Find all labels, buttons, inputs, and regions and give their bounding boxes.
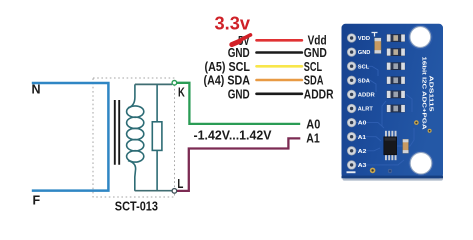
silkscreen mark near VDD [372, 33, 378, 37]
via right mid [428, 129, 432, 133]
svg-text:A2: A2 [358, 149, 367, 155]
svg-text:SDA: SDA [304, 74, 324, 88]
SCT-013 dashed enclosure [93, 78, 175, 197]
board shadow [343, 177, 444, 181]
svg-text:GND: GND [358, 50, 371, 56]
pin pad GND [347, 48, 356, 57]
wire SDA (orange) [257, 79, 302, 82]
svg-text:SCL: SCL [358, 64, 370, 70]
via dark [388, 169, 392, 173]
wire burden resistor top lead [156, 84, 158, 121]
svg-text:GND: GND [304, 46, 327, 60]
wire Vdd (red) [257, 39, 302, 42]
svg-text:GND: GND [228, 87, 250, 101]
resistor SMD row SCL [387, 63, 405, 70]
wire secondary top [135, 83, 172, 85]
svg-text:SCL: SCL [304, 60, 323, 74]
pin pad A1 [347, 132, 356, 141]
svg-text:3.3v: 3.3v [215, 14, 251, 34]
svg-text:L: L [177, 177, 183, 191]
svg-text:(A4) SDA: (A4) SDA [204, 74, 251, 88]
svg-text:A0: A0 [358, 121, 367, 127]
IC ADS1115 chip [384, 131, 397, 160]
svg-text:SDA: SDA [358, 78, 370, 84]
capacitor C1 (vertical tan) [375, 38, 381, 53]
via below chip [370, 168, 376, 174]
svg-text:-1.42V...1.42V: -1.42V...1.42V [194, 129, 273, 143]
node K [172, 81, 177, 86]
mounting hole top [408, 25, 433, 50]
module U1 ADS1115 board [342, 24, 444, 181]
capacitor C2 (right of chip) [403, 139, 409, 153]
strike-through over 5V [232, 35, 251, 45]
svg-text:ADDR: ADDR [358, 93, 375, 99]
wire SCL (yellow) [257, 65, 302, 68]
resistor SMD row ADDR [387, 91, 405, 98]
transformer T1 core [115, 100, 119, 165]
transformer T1 secondary winding [127, 84, 144, 190]
node L [172, 189, 177, 194]
wire ADDR (black) [257, 93, 302, 96]
pin pad ADDR [347, 90, 356, 99]
board substrate [342, 24, 444, 179]
wire burden resistor bottom lead [156, 150, 158, 190]
svg-text:A1: A1 [306, 132, 320, 146]
svg-text:ADDR: ADDR [304, 87, 334, 101]
svg-text:A3: A3 [358, 163, 367, 169]
pin pad A0 [347, 118, 356, 127]
pin pad SCL [347, 62, 356, 71]
pin pad ALRT [347, 104, 356, 113]
mounting hole bottom [408, 151, 433, 176]
svg-text:K: K [178, 85, 185, 99]
resistor SMD row ALRT [387, 105, 405, 112]
wire A1 (purple from L) [177, 138, 300, 191]
pin pad SDA [347, 76, 356, 85]
pin pad VDD [347, 34, 356, 43]
svg-text:GND: GND [228, 46, 250, 60]
pin pad A3 [347, 161, 356, 170]
svg-text:N: N [32, 83, 41, 97]
resistor SMD row SDA [387, 77, 405, 84]
svg-text:F: F [33, 194, 41, 208]
svg-text:A1: A1 [358, 135, 366, 141]
copper traces [356, 66, 414, 165]
pin pad A2 [347, 147, 356, 156]
svg-text:VDD: VDD [358, 36, 370, 42]
svg-text:SCT-013: SCT-013 [115, 199, 158, 213]
wire A0 (green from K) [177, 83, 300, 124]
silkscreen dash below A3 [347, 171, 356, 173]
svg-text:(A5) SCL: (A5) SCL [205, 60, 251, 74]
wire primary (blue, N to F) [32, 83, 109, 191]
via near text [414, 120, 419, 125]
svg-text:A0: A0 [306, 117, 320, 131]
wire GND (black) [257, 51, 302, 54]
resistor SMD row GND [387, 49, 405, 56]
svg-text:ADS1115: ADS1115 [427, 76, 433, 113]
wire secondary bottom [135, 190, 172, 192]
resistor R burden [152, 122, 162, 151]
svg-text:ALRT: ALRT [358, 107, 374, 113]
resistor SMD row VDD [387, 34, 405, 41]
svg-text:16bit I2C ADC+PGA: 16bit I2C ADC+PGA [420, 57, 426, 131]
